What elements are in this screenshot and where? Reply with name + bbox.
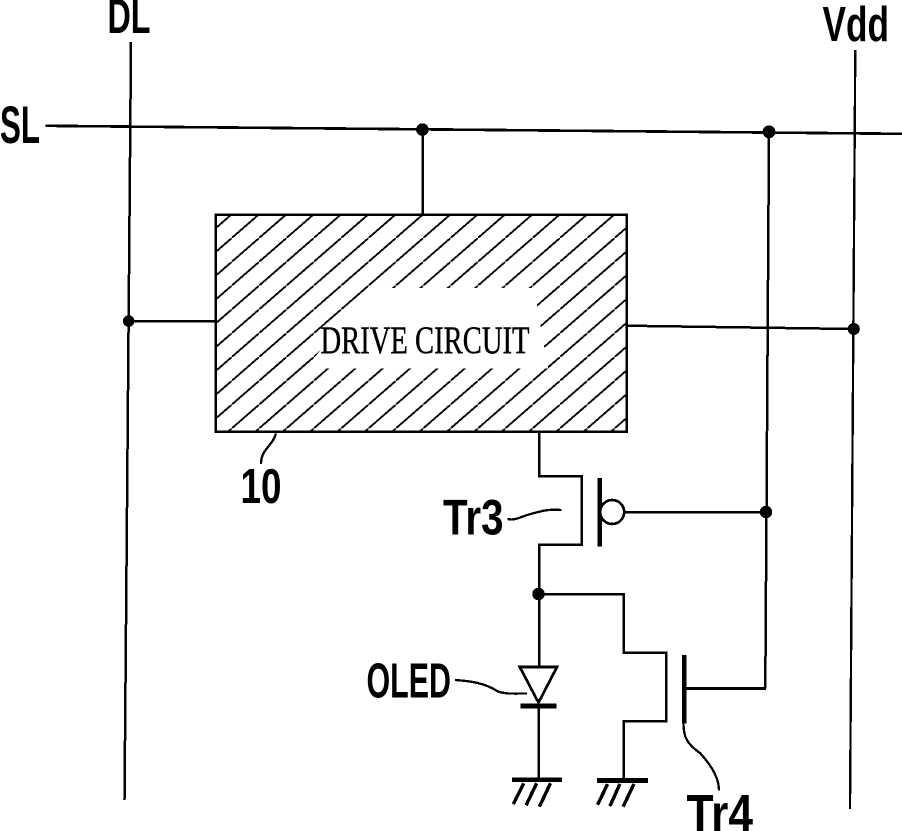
svg-text:Vdd: Vdd xyxy=(823,0,890,52)
svg-text:DRIVE CIRCUIT: DRIVE CIRCUIT xyxy=(321,318,530,362)
svg-text:DL: DL xyxy=(108,0,151,44)
svg-text:10: 10 xyxy=(241,460,282,514)
svg-text:Tr3: Tr3 xyxy=(443,490,504,546)
svg-text:Tr4: Tr4 xyxy=(687,784,754,831)
svg-text:OLED: OLED xyxy=(367,654,452,709)
svg-text:SL: SL xyxy=(0,96,40,155)
